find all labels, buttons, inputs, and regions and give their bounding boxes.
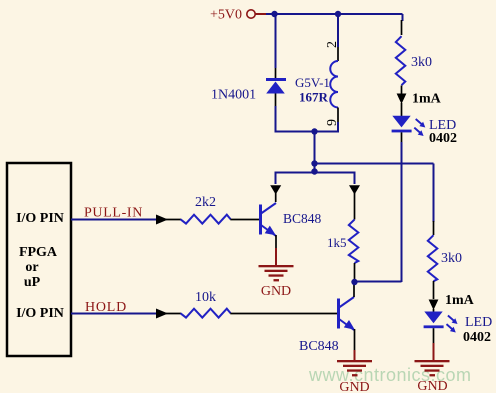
node: junction above diode <box>271 11 277 17</box>
wire: relay coil top pin <box>337 14 339 47</box>
LED D1 <box>392 116 410 128</box>
svg-text:PULL-IN: PULL-IN <box>84 206 143 221</box>
svg-text:LED: LED <box>465 315 492 330</box>
svg-text:0402: 0402 <box>429 131 457 146</box>
inductor coil K1 G5V-1 <box>330 61 338 108</box>
svg-text:2: 2 <box>325 41 340 48</box>
wire: R5 to LED2 with current arrow <box>433 281 435 299</box>
transistor Q1 BC848 <box>261 203 277 236</box>
wire: rail under diode and coil <box>275 131 340 133</box>
svg-text:167R: 167R <box>299 90 329 105</box>
wire: relay coil bottom pin <box>337 108 339 124</box>
svg-text:uP: uP <box>24 275 41 290</box>
wire: 10k to Q2 base <box>230 313 337 315</box>
diode 1N4001 (flyback, cathode up) <box>266 78 286 81</box>
svg-text:0402: 0402 <box>463 330 491 345</box>
ground GND1 <box>259 265 294 281</box>
svg-text:or: or <box>25 260 38 275</box>
resistor R1 2k2 <box>181 215 231 224</box>
svg-text:9: 9 <box>325 119 340 126</box>
current arrow into Q1 collector <box>270 185 281 194</box>
wire: 3k0 branch 2 drop <box>433 164 435 223</box>
wire: LED2 cathode to ground <box>433 328 435 344</box>
svg-text:+5V0: +5V0 <box>210 8 242 23</box>
svg-text:FPGA: FPGA <box>19 245 58 260</box>
wire: Q2 collector up to junction <box>353 282 355 297</box>
LED D1 emission arrows <box>414 119 425 136</box>
current arrow into 1k5 <box>349 185 360 194</box>
node: junction above relay coil <box>335 11 341 17</box>
wire: top rail corner down to R4 <box>402 14 404 21</box>
svg-text:1mA: 1mA <box>445 293 475 308</box>
node: junction at x314 <box>311 128 317 134</box>
svg-text:I/O PIN: I/O PIN <box>16 306 64 321</box>
node: junction 1k5/Q2/LED1 return <box>351 279 357 285</box>
transistor Q2 BC848 <box>339 297 355 330</box>
svg-text:BC848: BC848 <box>283 211 322 226</box>
wire: rail from junction to LED1 column <box>355 281 402 283</box>
ground GND3 <box>415 360 450 376</box>
wire: Q2 emitter down <box>354 329 356 351</box>
svg-text:HOLD: HOLD <box>85 300 127 315</box>
resistor R2 10k <box>181 309 231 318</box>
node: tee to left rail <box>311 168 317 174</box>
resistor R4 3k0 <box>396 36 406 85</box>
wire: diode top pin <box>275 14 277 68</box>
LED D2 <box>424 312 442 324</box>
svg-text:I/O PIN: I/O PIN <box>16 211 64 226</box>
svg-text:1mA: 1mA <box>412 92 442 107</box>
svg-text:GND: GND <box>339 380 369 393</box>
resistor R3 1k5 <box>349 220 359 264</box>
svg-text:1k5: 1k5 <box>327 235 347 250</box>
HOLD wire from I/O pin <box>71 313 158 315</box>
wire: +5V top rail <box>266 13 403 15</box>
wire: R4 to LED1 with current arrow <box>401 86 403 94</box>
wire: right rail to 3k0 branch <box>315 163 434 165</box>
svg-text:GND: GND <box>261 284 291 299</box>
svg-text:10k: 10k <box>195 290 216 305</box>
svg-text:1N4001: 1N4001 <box>211 88 256 103</box>
svg-text:BC848: BC848 <box>299 339 339 354</box>
wire: vertical drop from rail <box>314 132 316 173</box>
FPGA box <box>7 163 71 356</box>
node: tee to right rail <box>311 160 317 166</box>
ground GND2 <box>337 360 372 376</box>
svg-text:GND: GND <box>417 379 447 393</box>
wire: diode bottom pin <box>275 94 277 108</box>
wire: LED1 cathode down long run <box>401 132 403 143</box>
wire: 2k2 to Q1 base <box>230 219 259 221</box>
signal direction arrow <box>156 215 168 225</box>
wire: 1k5 bottom pin <box>354 263 356 282</box>
svg-text:3k0: 3k0 <box>411 55 432 70</box>
PULL-IN wire from I/O pin <box>71 219 158 221</box>
wire: Q1 emitter down <box>275 235 277 249</box>
signal direction arrow <box>156 309 168 319</box>
svg-text:G5V-1: G5V-1 <box>295 75 330 90</box>
LED D2 emission arrows <box>447 316 458 333</box>
svg-text:3k0: 3k0 <box>441 251 462 266</box>
wire: left rail collector/1k5 <box>276 173 355 185</box>
svg-text:2k2: 2k2 <box>195 195 216 210</box>
resistor R5 3k0 <box>428 235 438 281</box>
